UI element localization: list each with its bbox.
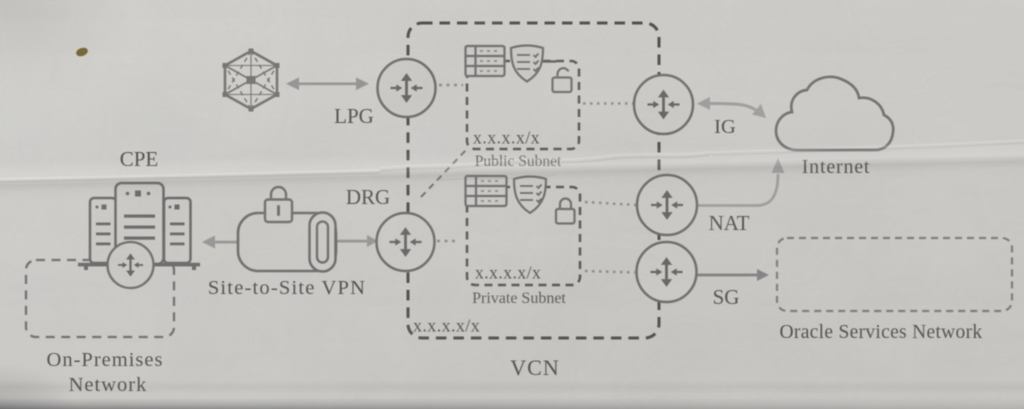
LPG router circle [378, 59, 436, 117]
CPE router circle [108, 242, 154, 288]
dotted link Private Subnet to SG [585, 271, 635, 273]
Internet cloud [776, 77, 893, 150]
open lock icon public [553, 68, 572, 92]
connector shield to lock public [543, 60, 556, 62]
Private Subnet box [467, 187, 580, 285]
closed lock icon private [556, 199, 575, 224]
On-Premises Network box [26, 260, 174, 337]
Site-to-Site VPN icon [238, 187, 336, 272]
Oracle Services Network box [777, 238, 1012, 311]
Public Subnet box [467, 61, 579, 149]
paper wrinkle lines along fold [0, 140, 1024, 182]
CPE server icon [78, 183, 200, 270]
SG router circle [637, 242, 697, 302]
curved double arrow IG to Internet [697, 97, 766, 118]
route table icon private [466, 176, 507, 206]
shield icon private [514, 177, 546, 214]
dotted link LPG to Public Subnet [439, 84, 463, 86]
dashed diagonal DRG to Public Subnet [421, 150, 466, 197]
route table icon public [466, 46, 505, 76]
arrow VPN to DRG [336, 235, 378, 247]
double arrow mesh to LPG [286, 78, 369, 91]
paper speck [75, 46, 89, 58]
IG router circle [634, 75, 693, 134]
DRG router circle [377, 213, 435, 271]
VCN box [408, 23, 659, 338]
dotted link Private Subnet to NAT [585, 202, 636, 205]
dotted link DRG right [437, 240, 459, 242]
dotted link Public Subnet to IG [583, 102, 633, 104]
NAT router circle [637, 175, 697, 235]
curved arrow NAT to Internet [697, 158, 785, 206]
LPG mesh icon [223, 49, 280, 112]
shield icon public [511, 46, 543, 82]
arrow VPN to CPE [202, 236, 238, 249]
arrow SG to Oracle Services Network [697, 269, 769, 281]
